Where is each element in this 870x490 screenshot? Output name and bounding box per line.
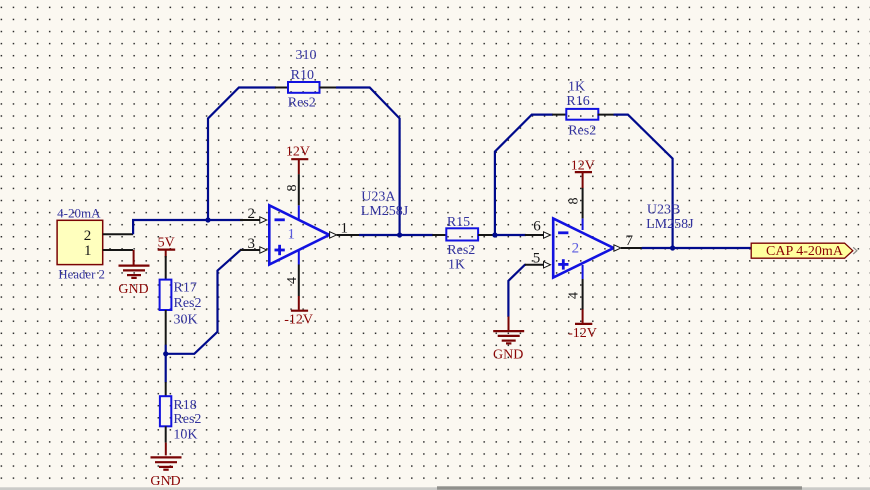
svg-text:LM258J: LM258J [361,204,409,219]
svg-text:4: 4 [567,292,582,299]
svg-text:R15: R15 [447,215,470,230]
port CAP 4-20mA [751,243,853,259]
op-amp U23A [269,205,329,264]
svg-text:LM258J: LM258J [646,217,694,232]
svg-text:1: 1 [84,243,92,259]
svg-text:2: 2 [84,228,92,244]
svg-text:R16: R16 [566,94,589,109]
node A junction [163,351,168,356]
scrollbar thumb [437,486,802,489]
ground GND1 [118,266,149,298]
svg-text:Header 2: Header 2 [58,267,105,281]
svg-text:Res2: Res2 [173,412,201,427]
power 5V [158,236,176,258]
svg-text:Res2: Res2 [174,296,202,311]
svg-text:Res2: Res2 [447,243,475,258]
svg-text:U23B: U23B [647,203,680,218]
resistor R17 [160,280,172,310]
header pin 2 [103,233,133,235]
connector header 2 [57,220,103,264]
op-amp U23B [553,218,613,277]
U23A pin 4 [285,251,300,296]
scrollbar track [0,487,870,490]
svg-text:4-20mA: 4-20mA [57,205,101,220]
node E junction [670,245,675,250]
wire node A to U23A pin 3 [166,250,243,354]
svg-text:8: 8 [285,185,300,192]
svg-text:1: 1 [288,227,296,243]
U23B pin 4 [567,265,583,310]
svg-text:GND: GND [150,474,180,489]
svg-text:5: 5 [533,250,541,266]
svg-text:GND: GND [118,282,148,297]
node B junction [205,217,210,222]
U23B pin 5 [525,250,551,268]
resistor R10 pin 1 [275,87,288,89]
wire header pin2 to U23A pin 2 [133,220,243,234]
ground GND3 [150,457,181,489]
resistor R17 pin 2 [165,310,167,345]
resistor R10 [288,82,320,93]
wire U23B output to port [642,247,751,249]
U23A pin 3 [240,236,267,253]
power -12V (U23A) [284,296,313,328]
svg-text:4: 4 [285,277,300,284]
resistor R15 pin 1 [432,234,446,236]
svg-text:12V: 12V [286,144,310,159]
svg-text:Res2: Res2 [288,95,316,110]
U23A pin 8 [285,174,300,220]
svg-text:-12V: -12V [568,326,597,341]
svg-text:30K: 30K [174,313,198,328]
svg-text:Res2: Res2 [568,124,596,139]
node D junction [492,232,497,237]
wire R16 to node E [614,115,673,248]
svg-text:1: 1 [341,220,349,236]
svg-text:7: 7 [626,233,634,249]
wire R15 to U23B pin 6 [493,234,526,236]
header pin 1 [103,249,133,251]
resistor R18 [160,396,171,426]
svg-text:R10: R10 [291,68,314,83]
wire header pin1 to ground [133,250,135,265]
resistor R16 [566,109,598,120]
resistor R17 pin 1 [165,256,167,280]
svg-text:1K: 1K [448,257,465,272]
wire node D to R16 [495,115,553,236]
wire R17 to node A [165,345,167,383]
svg-text:8: 8 [567,198,582,205]
svg-text:CAP 4-20mA: CAP 4-20mA [766,244,844,259]
svg-text:R18: R18 [173,398,196,413]
resistor R15 [446,228,478,240]
resistor R16 pin 2 [598,114,614,116]
resistor R10 pin 2 [320,87,337,89]
power 12V (U23A) [286,144,310,174]
svg-text:5V: 5V [158,236,175,251]
wire node B to R10 [208,88,276,222]
U23B pin 8 [567,188,583,230]
wire U23B pin 5 to ground [508,265,526,317]
resistor R16 pin 1 [552,114,566,116]
power 12V (U23B) [571,158,595,188]
U23A pin 2 [240,206,267,223]
resistor R18 pin 1 [165,382,167,396]
svg-text:U23A: U23A [361,190,396,205]
svg-text:10K: 10K [173,428,197,443]
svg-text:1K: 1K [568,79,585,94]
svg-text:12V: 12V [571,158,595,173]
U23B pin 6 [525,218,551,238]
svg-text:310: 310 [296,48,317,63]
svg-text:2: 2 [572,241,580,257]
wire R18 to ground [165,443,167,456]
U23B pin 7 output [614,233,642,251]
wire U23A output to R15 [359,234,433,236]
svg-text:R17: R17 [174,280,197,295]
svg-text:3: 3 [247,236,255,252]
svg-text:GND: GND [493,348,523,363]
power -12V (U23B) [568,309,597,341]
resistor R18 pin 2 [165,426,167,442]
svg-text:2: 2 [247,206,255,222]
node C junction [397,232,402,237]
ground GND2 [493,331,524,363]
svg-text:6: 6 [533,218,541,234]
port tail chevron [853,247,857,254]
resistor R15 pin 2 [478,234,494,236]
wire R10 to node C [336,88,400,236]
U23A pin 1 output [330,220,360,238]
svg-text:-12V: -12V [284,313,313,328]
